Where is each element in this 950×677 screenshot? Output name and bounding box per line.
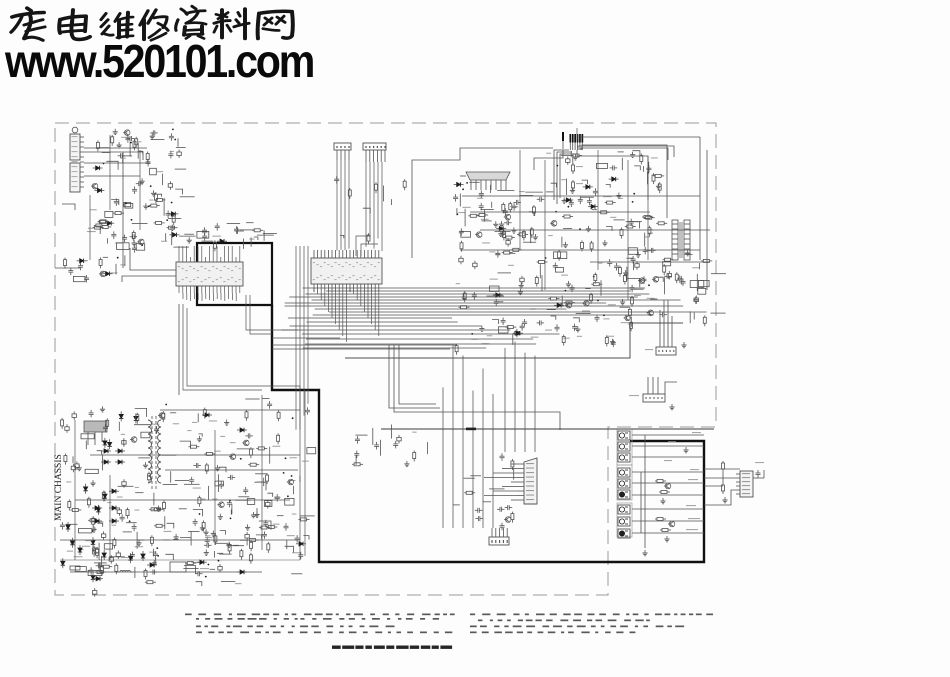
ground	[570, 187, 575, 193]
resistor	[277, 433, 280, 444]
capacitor	[520, 276, 524, 285]
capacitor	[96, 563, 104, 568]
value label	[456, 283, 460, 284]
wire	[696, 274, 698, 291]
ground	[683, 447, 688, 453]
capacitor	[555, 324, 560, 332]
resistor	[656, 222, 667, 225]
wire	[262, 397, 269, 399]
component box	[265, 501, 272, 507]
wire	[269, 447, 271, 464]
capacitor	[566, 156, 570, 165]
resistor	[517, 233, 528, 236]
capacitor	[284, 523, 289, 531]
value label	[531, 337, 539, 338]
junction node	[129, 520, 131, 522]
capacitor	[648, 248, 656, 253]
resistor R901	[722, 461, 725, 472]
value label	[561, 179, 566, 180]
PSU bus wire	[160, 409, 300, 411]
logo calligraphy block	[11, 6, 293, 40]
wire	[129, 142, 131, 157]
junction node	[593, 276, 595, 278]
ground	[636, 252, 641, 258]
wire	[98, 562, 100, 573]
capacitor	[234, 226, 239, 234]
value label	[462, 207, 470, 208]
capacitor	[479, 191, 484, 199]
U201 pin drop wires	[314, 288, 379, 342]
capacitor	[677, 275, 682, 283]
value label	[164, 531, 172, 532]
diode	[96, 505, 100, 515]
wire	[124, 255, 126, 266]
PSU line filter L601	[118, 570, 133, 572]
PSU bus wire	[75, 499, 290, 501]
IC U101 TA8690 body and pins	[176, 257, 243, 293]
signal label	[690, 469, 699, 470]
capacitor	[354, 451, 359, 459]
wire	[122, 156, 124, 163]
capacitor	[245, 532, 249, 541]
component box	[197, 231, 209, 238]
wire	[490, 185, 492, 193]
resistor	[266, 473, 269, 484]
value label	[644, 236, 649, 237]
wire	[98, 523, 103, 527]
value label	[487, 335, 493, 336]
diode	[83, 484, 87, 494]
flyback transformer T444	[460, 172, 510, 190]
wire	[363, 208, 370, 213]
wire	[118, 422, 120, 431]
resistor	[98, 220, 109, 223]
capacitor	[227, 500, 232, 508]
wire	[704, 469, 740, 486]
tuner wire	[89, 195, 91, 260]
resistor	[64, 258, 67, 269]
wire	[711, 273, 726, 275]
capacitor	[643, 247, 648, 255]
junction node	[150, 185, 152, 187]
wire	[592, 209, 597, 211]
resistor	[599, 211, 610, 214]
diode	[563, 198, 573, 202]
resistor	[88, 519, 99, 522]
AV jack group outlines	[617, 429, 632, 537]
capacitor	[495, 250, 500, 257]
wire	[630, 222, 640, 229]
value label	[85, 540, 92, 541]
wire route	[246, 295, 272, 334]
diode	[77, 259, 87, 263]
wire	[633, 151, 640, 156]
diode	[513, 331, 523, 335]
signal label	[688, 518, 700, 519]
ground	[245, 524, 250, 530]
PSU bus wire	[214, 430, 216, 545]
logo char 维	[101, 13, 133, 38]
wire	[626, 267, 628, 281]
logo char 修	[140, 10, 168, 40]
wire route	[389, 345, 560, 430]
component box	[698, 288, 706, 294]
diode VD613	[202, 413, 212, 417]
value label	[149, 552, 156, 553]
resistor	[571, 154, 582, 157]
HV section wire	[544, 160, 546, 290]
resistor	[648, 226, 651, 237]
logo char 电	[59, 10, 90, 40]
resistor	[619, 266, 622, 277]
junction node	[172, 129, 174, 131]
resistor	[459, 306, 470, 309]
junction node	[597, 300, 599, 302]
wire	[118, 485, 134, 487]
wire	[111, 200, 119, 205]
wire	[163, 484, 178, 486]
capacitor	[152, 560, 157, 568]
wire	[175, 189, 182, 194]
resistor	[98, 220, 109, 223]
resistor R90	[655, 480, 666, 483]
wire	[620, 306, 630, 308]
value label	[121, 158, 126, 159]
ground	[90, 480, 95, 486]
wire	[85, 441, 87, 450]
value label	[163, 539, 170, 540]
value label	[610, 217, 616, 218]
value label	[608, 304, 616, 305]
capacitor	[397, 435, 401, 444]
CRT drive bus into bold box	[272, 342, 535, 529]
wire	[561, 296, 563, 307]
wire	[102, 152, 111, 154]
wire	[689, 311, 691, 323]
capacitor	[169, 133, 174, 141]
wire	[551, 183, 557, 187]
wire	[291, 573, 302, 575]
resistor	[564, 301, 575, 304]
capacitor	[193, 519, 198, 527]
capacitor	[607, 259, 612, 267]
wire	[340, 235, 344, 238]
resistor	[591, 283, 602, 286]
value label	[157, 171, 163, 172]
junction node	[148, 206, 150, 208]
wire	[175, 168, 187, 170]
diode	[107, 439, 111, 449]
wire	[489, 488, 504, 490]
diode	[454, 182, 464, 186]
resistor	[640, 154, 643, 165]
wire	[492, 320, 498, 325]
resistor	[93, 226, 104, 229]
wire	[109, 556, 125, 558]
wires to XS201	[660, 300, 672, 347]
value label	[135, 546, 144, 547]
diode	[168, 212, 178, 216]
capacitor	[453, 194, 458, 202]
wire	[217, 552, 223, 554]
connector drop wires	[337, 160, 382, 256]
value label	[107, 502, 111, 503]
HV section wire	[597, 150, 599, 270]
resistor R92	[655, 518, 666, 521]
resistor	[167, 226, 178, 229]
resistor	[93, 546, 96, 557]
value label	[606, 336, 614, 337]
wire	[219, 553, 231, 555]
capacitor	[78, 263, 83, 271]
capacitor	[65, 424, 69, 433]
wire	[644, 233, 646, 247]
junction node	[545, 257, 547, 259]
component box	[490, 286, 500, 291]
value label	[96, 521, 103, 522]
transistor	[582, 301, 589, 307]
ground	[404, 461, 409, 467]
capacitor	[177, 150, 181, 159]
capacitor	[228, 475, 236, 480]
tuner wire	[109, 135, 111, 210]
resistor	[468, 214, 479, 217]
wire	[547, 309, 556, 311]
ground	[685, 250, 690, 256]
wire	[210, 568, 215, 570]
value label	[121, 137, 129, 138]
wire	[123, 531, 132, 533]
wire	[525, 191, 543, 193]
resistor	[152, 508, 163, 511]
bold section outline lower right (video board)	[272, 305, 704, 562]
value label	[290, 457, 297, 458]
wire	[138, 539, 145, 541]
resistor	[100, 225, 111, 228]
wire	[498, 301, 503, 303]
capacitor	[266, 500, 270, 509]
ground	[575, 326, 580, 332]
ground	[143, 203, 148, 209]
resistor	[145, 581, 156, 584]
capacitor	[305, 407, 310, 415]
resistor R91	[659, 491, 670, 494]
capacitor	[501, 318, 506, 326]
value label	[482, 242, 490, 243]
wire	[123, 155, 132, 157]
resistor	[61, 418, 64, 429]
value label	[121, 434, 125, 435]
value label	[412, 432, 416, 433]
wire	[680, 276, 682, 285]
wire	[208, 486, 210, 500]
wire	[539, 264, 541, 278]
wire	[582, 180, 588, 184]
resistor	[136, 413, 139, 424]
value label	[87, 231, 96, 232]
resistor	[502, 202, 505, 213]
wire	[685, 253, 692, 255]
value label	[645, 250, 651, 251]
capacitor	[295, 535, 300, 543]
capacitor	[127, 136, 135, 141]
resistor	[530, 227, 533, 238]
wire route	[122, 248, 176, 282]
value label	[648, 229, 653, 230]
capacitor	[537, 320, 545, 325]
value label	[115, 243, 124, 244]
wire	[136, 532, 138, 549]
wire	[753, 470, 764, 478]
connector XS301	[489, 528, 509, 545]
wire	[464, 477, 475, 479]
transistor	[652, 277, 659, 283]
wire	[227, 545, 245, 547]
signal bus horizontal runs	[282, 288, 707, 348]
wire	[299, 476, 301, 482]
wire	[170, 412, 176, 414]
wire	[237, 448, 255, 450]
HV section wire	[519, 150, 521, 250]
diode	[119, 411, 123, 421]
junction node	[229, 500, 231, 502]
value label	[292, 514, 297, 515]
wire	[220, 531, 226, 535]
capacitor	[118, 153, 126, 158]
junction node	[466, 182, 468, 184]
wire route	[60, 386, 305, 560]
wire	[176, 146, 186, 148]
wire	[456, 208, 458, 215]
wire	[135, 408, 147, 417]
wire	[519, 195, 533, 197]
wire	[171, 232, 173, 246]
diode	[217, 239, 227, 243]
ground	[156, 506, 161, 512]
resistor	[463, 291, 466, 302]
wire	[285, 546, 294, 552]
component box	[554, 252, 567, 259]
resistor	[535, 276, 538, 287]
value label	[212, 236, 221, 237]
wire	[541, 275, 543, 291]
value label	[205, 535, 210, 536]
value label	[135, 487, 139, 488]
wire	[459, 194, 461, 207]
resistor	[455, 344, 458, 355]
resistor	[259, 526, 270, 529]
wire	[498, 272, 512, 274]
wire	[221, 580, 235, 582]
diode	[93, 166, 103, 170]
resistor	[652, 173, 655, 184]
junction node	[287, 495, 289, 497]
diode	[91, 537, 95, 547]
capacitor	[193, 463, 201, 468]
ground	[616, 193, 621, 199]
wire	[566, 179, 568, 195]
ground	[204, 550, 209, 556]
PSU bridge box	[170, 562, 186, 572]
capacitor	[146, 159, 151, 167]
component box	[73, 276, 85, 281]
resistor	[96, 140, 99, 151]
resistor	[267, 542, 270, 553]
ground	[586, 226, 591, 232]
capacitor	[153, 551, 158, 559]
junction node	[208, 564, 210, 566]
wire	[576, 313, 591, 315]
value label	[249, 239, 254, 240]
resistor	[133, 139, 136, 150]
junction node	[633, 193, 635, 195]
wire	[155, 558, 157, 565]
value label	[92, 528, 96, 529]
wire	[481, 209, 494, 211]
capacitor	[553, 263, 558, 271]
resistor	[581, 240, 584, 251]
diode	[609, 177, 619, 181]
ground	[254, 512, 259, 518]
capacitor	[667, 271, 671, 280]
wire	[151, 139, 165, 141]
value label	[287, 535, 295, 536]
wire	[134, 567, 136, 578]
ground	[461, 294, 466, 300]
resistor	[642, 216, 653, 219]
junction node	[199, 513, 201, 515]
svg-text:MAIN CHASSIS: MAIN CHASSIS	[54, 454, 64, 521]
resistor	[203, 408, 206, 419]
component box	[117, 243, 130, 250]
capacitor	[122, 479, 126, 488]
wire	[196, 582, 202, 586]
junction node	[648, 284, 650, 286]
capacitor	[202, 233, 207, 241]
ground near XS201	[681, 342, 686, 348]
wire	[259, 521, 271, 530]
resistor	[115, 563, 118, 574]
ground	[224, 420, 229, 426]
value label	[561, 275, 568, 276]
transistor	[287, 479, 294, 485]
AV jack XS45	[618, 479, 630, 488]
junction node	[166, 219, 168, 221]
diode	[91, 572, 95, 582]
diode	[103, 491, 107, 501]
value label	[79, 549, 84, 550]
capacitor	[459, 228, 464, 236]
capacitor	[202, 227, 207, 235]
transistor	[137, 239, 144, 245]
wire	[240, 540, 247, 545]
resistor	[70, 509, 81, 512]
wire	[621, 158, 623, 170]
resistor	[522, 230, 525, 241]
wire	[170, 471, 172, 482]
resistor	[213, 240, 216, 251]
capacitor	[84, 275, 89, 283]
value label	[88, 228, 94, 229]
ground	[174, 534, 179, 540]
resistor	[154, 192, 157, 203]
wire route	[412, 148, 563, 258]
component box	[136, 244, 145, 251]
capacitor	[109, 555, 113, 564]
resistor	[132, 230, 135, 241]
value label	[213, 499, 218, 500]
resistor	[111, 135, 114, 146]
